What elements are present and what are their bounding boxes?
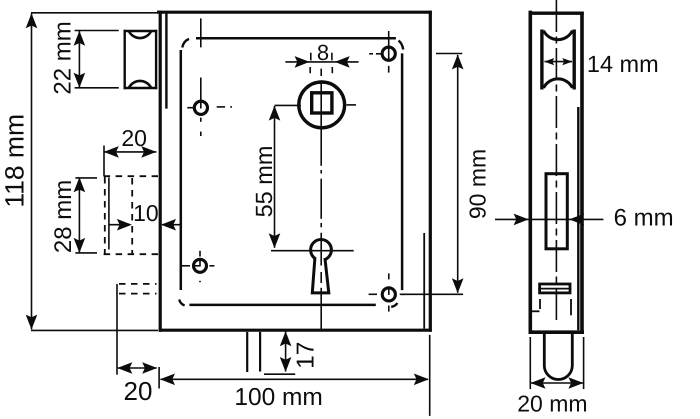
svg-text:118 mm: 118 mm (0, 114, 30, 208)
spindle horizontal centerline right dash (347, 104, 357, 106)
inner plate corner dashes (179, 39, 403, 307)
svg-text:8: 8 (317, 40, 329, 65)
dimension 20 top (104, 151, 156, 153)
svg-text:28 mm: 28 mm (50, 180, 77, 253)
svg-text:10: 10 (133, 200, 159, 226)
spindle-keyhole vertical centerline (320, 69, 322, 330)
screw bottom-right (382, 288, 395, 301)
faceplate inner edge line (165, 11, 167, 109)
dimension 14 mm (545, 61, 573, 63)
screw top-left (194, 101, 207, 114)
screw bottom-right centerlines (369, 273, 405, 311)
screw top-left centerlines (187, 18, 232, 136)
keeper solid inner vertical (108, 178, 110, 250)
latch bolt bottom side view (544, 334, 572, 380)
side view box (529, 11, 585, 334)
follower boss rectangle side view (546, 174, 567, 249)
slot mid line (538, 288, 571, 290)
small details below slot (532, 299, 572, 315)
dimension 100 mm (159, 335, 430, 416)
dimension 20 mm side (530, 337, 583, 389)
dimension 17 (285, 332, 287, 372)
dimension 20 bottom-left (117, 284, 157, 375)
bottom bolt tab (247, 332, 260, 372)
dimension 6 mm (495, 218, 603, 220)
tab extension line (264, 373, 295, 375)
dashed keeper box (104, 176, 159, 254)
screw top-right centerlines (369, 31, 389, 73)
keeper lower dashed lines (119, 284, 157, 294)
side bolt faceplate inner line (577, 107, 579, 330)
svg-text:22 mm: 22 mm (50, 21, 77, 94)
svg-text:90 mm: 90 mm (465, 149, 491, 219)
arrowheads (26, 13, 585, 389)
roller bottom arc (129, 81, 151, 88)
side view centerline (555, 0, 557, 323)
svg-text:20 mm: 20 mm (517, 390, 587, 416)
svg-text:20: 20 (124, 376, 153, 406)
lock case front view outline (157, 11, 432, 332)
dimension 28 mm (75, 178, 97, 253)
dimension 90 mm (402, 54, 464, 295)
svg-text:17: 17 (292, 342, 319, 369)
inner thin line near right case edge (423, 233, 425, 329)
screw bottom-left (194, 259, 207, 272)
dimension 22 mm (75, 31, 119, 88)
dimension 118 mm (31, 13, 158, 331)
roller housing front view (124, 30, 158, 89)
slot rectangle side view (540, 284, 570, 293)
svg-text:14 mm: 14 mm (587, 51, 659, 77)
dimension 55 mm (275, 105, 302, 247)
dimension 8 (285, 53, 358, 73)
svg-text:6 mm: 6 mm (614, 205, 674, 232)
spindle hub circle (299, 82, 345, 128)
svg-text:55 mm: 55 mm (251, 146, 277, 218)
roller spool side view (542, 30, 574, 90)
keyhole horizontal leader line (271, 250, 354, 252)
screw top-right (382, 47, 395, 60)
svg-text:100 mm: 100 mm (234, 384, 323, 411)
dimension 10 (109, 224, 180, 226)
keyhole (311, 240, 332, 293)
spindle square 8mm (312, 93, 332, 113)
screw bottom-left centerlines (182, 251, 215, 282)
inner plate outline (181, 38, 402, 305)
roller top arc (129, 31, 151, 38)
